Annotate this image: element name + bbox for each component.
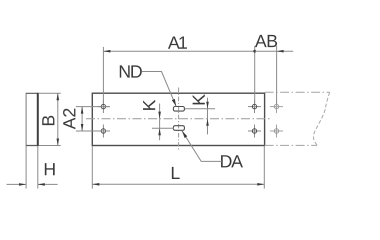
- slot DA (bottom slot): [173, 126, 184, 131]
- hole bottom-left: [97, 125, 110, 138]
- phantom hole top: [270, 100, 283, 113]
- horizontal centerline: [86, 118, 271, 120]
- phantom continuation bottom line: [265, 144, 317, 146]
- dimension K right: [185, 94, 215, 134]
- dimension A1: [103, 37, 256, 104]
- label DA with leader: [182, 131, 243, 168]
- break line: [313, 92, 329, 145]
- dimension A2: [63, 107, 110, 131]
- plate front view outline: [92, 93, 264, 145]
- dimension AB: [255, 35, 294, 104]
- dimension L: [92, 146, 264, 189]
- label ND with leader: [120, 65, 176, 106]
- phantom hole bottom: [270, 125, 283, 138]
- hole bottom-right: [248, 125, 261, 138]
- hole top-left: [97, 100, 110, 113]
- phantom continuation top line: [265, 91, 330, 93]
- hole top-right: [248, 100, 261, 113]
- dimension B: [39, 93, 61, 145]
- side view outline: [26, 93, 39, 146]
- dimension K left: [143, 100, 174, 140]
- vertical centerline through slots: [178, 88, 180, 152]
- dimension H: [7, 146, 58, 189]
- slot ND (top slot): [173, 107, 184, 112]
